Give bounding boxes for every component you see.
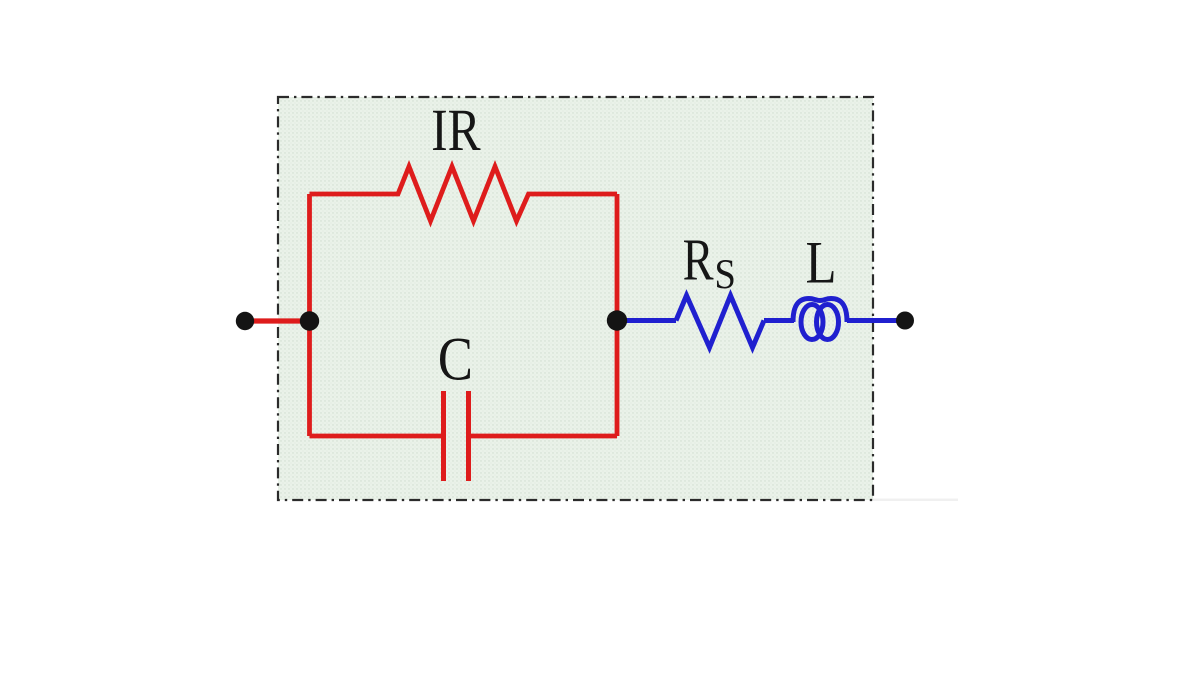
- label Rs: [684, 240, 714, 279]
- wire: Rs to inductor: [764, 318, 794, 323]
- node: right terminal dot: [896, 312, 914, 330]
- wire: inductor to right terminal: [847, 318, 901, 323]
- node: middle junction dot: [607, 310, 627, 330]
- resistor R2 (Rs) blue zigzag: [676, 296, 764, 348]
- dashed boundary box (green halftone fill): [278, 97, 873, 500]
- inductor L1 loop 2: [817, 305, 839, 340]
- inductor L1 hump: [793, 299, 847, 323]
- wire: left vertical of RC loop: [307, 194, 312, 436]
- label IR: [433, 111, 480, 150]
- wire: node to blue resistor: [617, 318, 676, 323]
- faint artifact line at bottom right: [873, 499, 958, 502]
- wire: bottom right of loop: [471, 434, 618, 439]
- label L: [807, 243, 834, 283]
- node: left junction dot: [300, 311, 319, 330]
- wire: right vertical of RC loop: [615, 194, 620, 436]
- label C: [440, 339, 470, 381]
- node: left terminal dot: [236, 312, 254, 330]
- inductor L1 loop 1: [801, 305, 823, 340]
- wire: bottom left of loop: [310, 434, 442, 439]
- capacitor C1 plates: [441, 391, 446, 481]
- wire: left terminal lead (red): [245, 318, 310, 323]
- resistor R1 (IR) zigzag with top wires: [310, 167, 618, 222]
